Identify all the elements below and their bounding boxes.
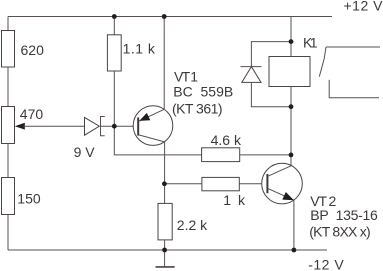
svg-text:(KT 361): (KT 361) <box>172 100 223 116</box>
svg-text:1.1 k: 1.1 k <box>123 41 156 57</box>
svg-text:K1: K1 <box>303 34 318 50</box>
svg-text:150: 150 <box>17 191 41 207</box>
svg-text:4.6 k: 4.6 k <box>211 132 242 148</box>
svg-text:BC 559B: BC 559B <box>173 83 233 99</box>
svg-text:1 k: 1 k <box>223 192 246 208</box>
svg-text:9 V: 9 V <box>74 144 96 160</box>
svg-text:(KT 8XX x): (KT 8XX x) <box>309 224 371 240</box>
svg-text:VT 1: VT 1 <box>174 69 198 85</box>
svg-text:470: 470 <box>20 106 44 122</box>
svg-text:+12 V: +12 V <box>344 0 383 13</box>
svg-text:620: 620 <box>21 42 45 58</box>
svg-text:2.2 k: 2.2 k <box>177 217 208 233</box>
svg-text:-12 V: -12 V <box>308 257 344 271</box>
svg-text:BP 135-16: BP 135-16 <box>310 207 378 223</box>
